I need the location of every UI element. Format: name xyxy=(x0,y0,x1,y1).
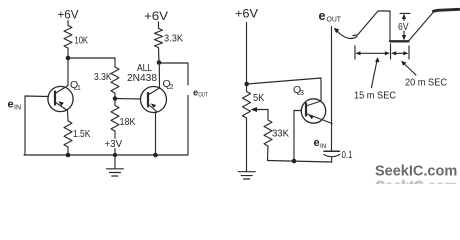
6V dimension arrow xyxy=(400,12,410,14)
svg-text:+3V: +3V xyxy=(105,138,123,150)
node B: Q2 base junction xyxy=(113,96,118,101)
e_OUT vertical line (Q3 emitter) xyxy=(331,27,333,152)
svg-text:+6V: +6V xyxy=(235,7,258,21)
svg-text:2N438: 2N438 xyxy=(127,72,157,84)
svg-text:1.5K: 1.5K xyxy=(73,128,90,140)
wire 3.3K to collector node xyxy=(158,48,161,63)
designator label Q1 xyxy=(70,79,81,92)
svg-text:+6V: +6V xyxy=(144,9,168,23)
svg-text:15 m SEC: 15 m SEC xyxy=(354,90,396,102)
node: Q2 collector junction xyxy=(157,60,162,65)
e_IN label (Q3 stage) xyxy=(314,137,327,150)
wire node B to Q2 base xyxy=(115,98,141,101)
e_OUT label (waveform) xyxy=(319,9,342,24)
wire 33K to rail xyxy=(267,146,270,161)
svg-text:1: 1 xyxy=(77,85,81,92)
wire 3.3K to node B xyxy=(114,93,116,99)
designator label Q3 xyxy=(293,84,304,97)
svg-text:20 m SEC: 20 m SEC xyxy=(405,77,447,89)
dimension span 15m xyxy=(358,52,389,54)
wire Q1 emitter to 1.5K xyxy=(67,111,70,122)
svg-text:5K: 5K xyxy=(253,92,264,104)
transistor Q3 xyxy=(301,99,325,123)
curved arrow from waveform to e_OUT line xyxy=(337,31,358,39)
svg-text:e: e xyxy=(319,9,326,23)
svg-text:e: e xyxy=(314,137,320,149)
SeekIC.com watermark xyxy=(375,164,457,180)
svg-text:3.3K: 3.3K xyxy=(94,71,112,83)
svg-text:6V: 6V xyxy=(398,21,409,33)
wire +6V to 3.3K xyxy=(158,22,160,29)
svg-text:33K: 33K xyxy=(272,128,289,140)
value label 3.3K (stage 2) xyxy=(164,33,183,45)
5K wiper arrow xyxy=(255,110,268,121)
svg-text:3: 3 xyxy=(300,90,304,97)
svg-text:SeekIC.com: SeekIC.com xyxy=(375,164,457,180)
svg-text:+6V: +6V xyxy=(58,8,79,22)
waveform trace xyxy=(353,11,390,41)
label ALL 2N438 xyxy=(127,62,157,84)
svg-text:18K: 18K xyxy=(120,116,136,128)
resistor 3.3K (interstage) xyxy=(111,67,119,93)
supply +6V label (Q3 stage) xyxy=(235,7,258,21)
wire node B to 18K xyxy=(114,99,116,106)
dimension ticks xyxy=(354,46,356,59)
wire from +6V to R 10K xyxy=(67,21,69,26)
svg-text:3.3K: 3.3K xyxy=(164,33,183,45)
value label 0.1 xyxy=(342,149,353,161)
wire 10K to node xyxy=(67,48,69,58)
node: ground junction xyxy=(113,153,117,157)
svg-text:IN: IN xyxy=(320,143,327,150)
node: junction below 10K xyxy=(66,56,71,61)
wire collector node to e_OUT terminal (upper) xyxy=(159,63,188,85)
ground (stage 1) xyxy=(114,155,116,168)
e_OUT label (stage 2) xyxy=(193,88,208,99)
value label 10K xyxy=(75,35,89,47)
value label 18K xyxy=(120,116,136,128)
resistor 3.3K (stage 2 collector) xyxy=(155,29,163,48)
label 20 m SEC xyxy=(405,77,447,89)
bottom rail (stage 1-2) xyxy=(24,154,188,156)
svg-text:IN: IN xyxy=(14,105,21,112)
transistor Q2 xyxy=(141,87,167,113)
svg-text:0.1: 0.1 xyxy=(342,149,353,161)
wire Q1 collector to node xyxy=(67,58,69,86)
node: emitter rail junction xyxy=(66,153,71,158)
dimension span 20m xyxy=(393,52,407,54)
wire 1.5K to rail xyxy=(67,147,69,155)
wire +6V down to 5K xyxy=(246,23,248,92)
node: Q2 emitter rail junction xyxy=(153,153,158,158)
wire e_OUT terminal (lower) to rail xyxy=(187,96,189,156)
e_IN label (left) xyxy=(8,99,22,112)
wire link to Q3 collector xyxy=(247,78,321,101)
wire Q2 emitter to rail xyxy=(156,112,157,156)
node: +6V link junction xyxy=(244,82,249,87)
capacitor 0.1 xyxy=(324,150,340,152)
svg-text:2: 2 xyxy=(170,84,174,91)
svg-text:SeekIC.com: SeekIC.com xyxy=(376,179,458,184)
value label 3.3K (interstage) xyxy=(94,71,112,83)
leader arrow 20 mSEC xyxy=(403,63,416,76)
svg-text:OUT: OUT xyxy=(327,15,342,24)
resistor 33K xyxy=(264,120,272,146)
svg-text:e: e xyxy=(8,99,14,111)
resistor 18K xyxy=(111,106,119,132)
label 15 m SEC xyxy=(354,90,396,102)
potentiometer 5K xyxy=(243,92,251,119)
wire Q2 collector up xyxy=(158,63,160,89)
leader arrow 15 mSEC xyxy=(372,60,378,88)
middle bottom rail xyxy=(268,161,332,163)
designator label Q2 xyxy=(163,78,174,91)
resistor 1.5K xyxy=(64,121,72,147)
+3V label xyxy=(103,138,123,150)
wire e_IN corner to Q1 base xyxy=(25,96,49,155)
value label 33K xyxy=(272,128,289,140)
supply +6V label (stage 2) xyxy=(144,9,168,23)
value label 1.5K xyxy=(73,128,90,140)
supply +6V label (stage 1) xyxy=(58,8,79,22)
value label 5K xyxy=(253,92,264,104)
resistor 10K xyxy=(64,26,72,49)
node: Q3 base rail junction xyxy=(292,159,297,164)
wire node to interstage resistor column xyxy=(68,58,115,67)
svg-text:10K: 10K xyxy=(75,35,89,47)
wire 18K to ground rail xyxy=(114,131,116,155)
svg-text:OUT: OUT xyxy=(199,93,208,99)
ground (below 5K) xyxy=(246,118,248,171)
svg-text:e: e xyxy=(193,88,198,99)
transistor Q1 xyxy=(48,86,73,111)
wire rail to Q3 base xyxy=(294,111,302,162)
